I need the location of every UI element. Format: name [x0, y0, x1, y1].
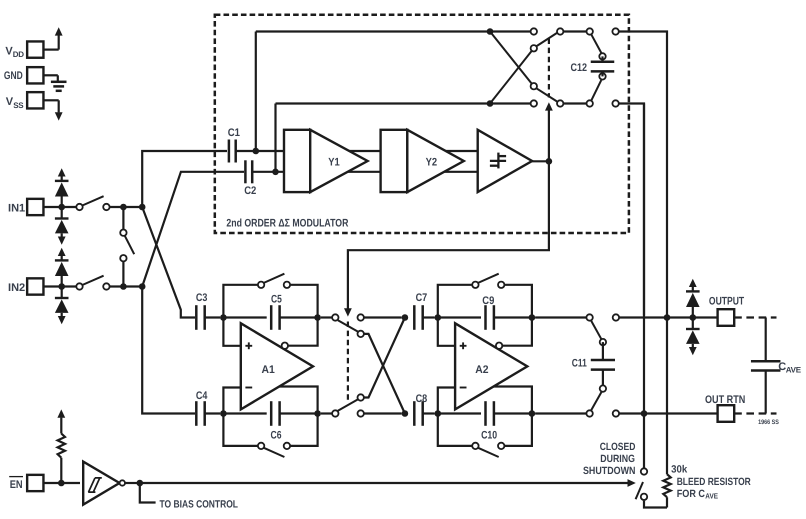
capacitor C10 — [438, 401, 532, 442]
svg-text:TO BIAS CONTROL: TO BIAS CONTROL — [160, 499, 239, 511]
pin VSS — [6, 92, 63, 120]
wire IN1 to C3 (diagonal) — [142, 207, 195, 318]
integrator Y2 — [381, 130, 464, 192]
wire A2 feedback top — [502, 318, 532, 346]
op-amp A2 — [455, 323, 527, 409]
switch shutdown — [636, 468, 648, 500]
switch mid bottom — [321, 394, 402, 416]
wire A2 out bottom to switch — [535, 412, 586, 414]
capacitor C5 — [223, 294, 317, 330]
capacitor C2 — [244, 160, 284, 197]
label 2nd ORDER modulator — [226, 217, 348, 229]
node A2 out top — [529, 314, 536, 321]
svg-text:C9: C9 — [482, 295, 494, 307]
svg-text:A1: A1 — [262, 364, 275, 376]
node B — [120, 283, 127, 290]
svg-text:C11: C11 — [572, 358, 587, 370]
wire shutdown to resistor — [644, 501, 667, 508]
svg-text:2nd ORDER ΔΣ MODULATOR: 2nd ORDER ΔΣ MODULATOR — [226, 217, 348, 229]
svg-text:Y2: Y2 — [426, 156, 438, 168]
switch mid top — [321, 314, 402, 337]
node row2 — [487, 100, 494, 107]
svg-text:C1: C1 — [228, 127, 240, 139]
switch input-commutating — [120, 207, 134, 287]
svg-text:C12: C12 — [571, 62, 588, 74]
node A1 out top — [314, 314, 321, 321]
svg-text:IN1: IN1 — [8, 203, 25, 215]
control arrow down — [344, 308, 352, 316]
wire V1 vertical — [643, 104, 645, 469]
svg-text:EN: EN — [10, 479, 23, 491]
node row1 — [487, 28, 494, 35]
wire outrtn row — [613, 410, 718, 416]
control arrow up — [545, 102, 553, 161]
switch C11 bottom — [586, 385, 606, 416]
svg-text:1966 SS: 1966 SS — [758, 419, 779, 426]
wire control to mid chopper — [348, 161, 549, 309]
node output-V2 — [664, 314, 671, 321]
switch C12 top — [587, 28, 606, 59]
svg-text:A2: A2 — [475, 364, 488, 376]
ground — [4, 70, 67, 91]
node EN out — [137, 480, 144, 487]
svg-text:C2: C2 — [244, 185, 256, 197]
svg-text:C3: C3 — [196, 292, 208, 304]
capacitor C9 — [438, 295, 532, 330]
svg-text:C10: C10 — [481, 430, 497, 442]
svg-text:DD: DD — [13, 50, 24, 59]
svg-text:BLEED RESISTOR: BLEED RESISTOR — [677, 476, 751, 488]
pin IN2 — [8, 278, 76, 294]
wire row2 — [276, 102, 531, 104]
svg-text:C6: C6 — [271, 430, 282, 442]
bubble EN inverter — [120, 480, 125, 485]
node A2 out bottom — [529, 410, 536, 417]
integrator Y1 — [284, 130, 368, 192]
node A2 in+ — [435, 314, 442, 321]
switch chop top — [531, 28, 587, 51]
switch C12 bottom — [587, 73, 606, 107]
node A1 in- — [220, 410, 227, 417]
wire comparator out — [532, 160, 549, 162]
wire Y2-comp top — [407, 150, 477, 152]
switch C6 bypass — [223, 414, 317, 458]
svg-text:C7: C7 — [416, 292, 428, 304]
node EN — [58, 480, 65, 487]
capacitor C8 — [414, 393, 434, 426]
control dashed top — [548, 39, 550, 98]
svg-text:OUT RTN: OUT RTN — [705, 394, 745, 406]
svg-text:OUTPUT: OUTPUT — [709, 296, 745, 308]
node A2 in- — [435, 410, 442, 417]
switch IN1 — [76, 196, 142, 210]
wire A1 -in — [223, 388, 240, 414]
node comparator out — [546, 158, 553, 165]
wire EN to shutdown switch — [125, 479, 636, 487]
capacitor C4 — [196, 390, 220, 426]
svg-text:AVE: AVE — [786, 366, 802, 375]
capacitor C11 — [572, 342, 615, 389]
wire IN1 to C1 — [142, 151, 227, 207]
label TO BIAS CONTROL — [160, 499, 239, 511]
wire IN2 to C2 (diagonal) — [142, 172, 244, 287]
switch C5 bypass — [223, 274, 317, 318]
wire output row — [613, 314, 718, 320]
svg-text:Y1: Y1 — [328, 156, 340, 168]
pin OUTPUT — [709, 296, 745, 326]
node C7 in — [402, 314, 409, 321]
node B2 — [139, 283, 146, 290]
svg-text:AVE: AVE — [705, 492, 718, 501]
wire to bias control — [140, 483, 156, 503]
wire Y1-Y2 bottom — [310, 171, 380, 173]
svg-text:30k: 30k — [671, 463, 687, 475]
wire cross row2-row1 — [490, 48, 534, 103]
label closed during shutdown — [583, 441, 636, 477]
wire dashed to Cave top — [734, 316, 776, 318]
svg-text:SHUTDOWN: SHUTDOWN — [583, 465, 635, 477]
wire Y2-comp bottom — [407, 171, 477, 173]
wire mid cross down — [364, 334, 405, 414]
wire A2 +in — [438, 318, 455, 346]
svg-text:SS: SS — [13, 101, 24, 110]
node A2 — [139, 204, 146, 211]
wire A2 to output switch — [535, 316, 586, 318]
svg-text:GND: GND — [4, 70, 23, 82]
wire row2 to V1 — [612, 100, 644, 315]
comparator U1 — [478, 130, 532, 192]
switch chop bottom — [531, 83, 587, 107]
switch C10 bypass — [438, 414, 532, 458]
wire A1 feedback bottom — [277, 387, 318, 414]
wire row1 — [256, 30, 531, 32]
node C2out — [272, 104, 279, 176]
wire IN2 to C4 — [142, 287, 195, 414]
wire cross row1-row2 — [490, 32, 534, 87]
node outrtn-V1 — [641, 410, 648, 417]
switch IN2 — [76, 276, 142, 290]
ESD diodes IN1 — [55, 168, 69, 245]
node output ESD — [690, 314, 697, 321]
pin EN — [9, 475, 80, 491]
svg-text:CLOSED: CLOSED — [600, 441, 636, 453]
pin GND — [27, 67, 58, 83]
capacitor C6 — [223, 401, 317, 442]
capacitor CAVE — [751, 318, 802, 414]
ESD diodes OUTPUT — [686, 279, 700, 356]
node C8 in — [402, 410, 409, 417]
svg-text:IN2: IN2 — [8, 282, 25, 294]
modulator dashed box — [215, 15, 629, 233]
svg-text:FOR C: FOR C — [677, 488, 706, 500]
ESD diodes IN2 — [55, 248, 69, 325]
resistor EN pullup — [57, 409, 65, 483]
pin IN1 — [8, 199, 76, 215]
capacitor C12 — [571, 56, 615, 76]
op-amp A1 — [241, 323, 313, 409]
svg-text:C4: C4 — [196, 390, 208, 402]
capacitor C7 — [414, 292, 434, 330]
switch C11 top — [586, 314, 606, 345]
pin OUT RTN — [705, 394, 745, 422]
control dashed mid — [347, 322, 349, 403]
switch C9 bypass — [438, 274, 532, 318]
wire A1 feedback top — [288, 318, 318, 346]
pin VDD — [5, 27, 62, 59]
node A1 out bottom — [314, 410, 321, 417]
wire mid cross up — [364, 318, 405, 398]
wire A2 -in — [438, 388, 455, 414]
wire dashed to Cave bottom — [734, 412, 776, 414]
node A — [120, 204, 127, 211]
label 1966 SS — [758, 419, 779, 426]
wire A1 +in — [223, 318, 240, 346]
node IN2 — [58, 283, 65, 290]
capacitor C3 — [196, 292, 220, 330]
wire row1 to V2 — [612, 28, 667, 317]
wire A2 feedback bottom — [491, 387, 532, 414]
svg-text:DURING: DURING — [600, 453, 635, 465]
svg-text:C8: C8 — [416, 393, 428, 405]
node C1out — [253, 32, 260, 155]
wire Y1-Y2 top — [310, 150, 380, 152]
capacitor C1 — [228, 127, 284, 162]
svg-text:C5: C5 — [271, 294, 282, 306]
comparator latch symbol — [490, 153, 506, 169]
switch A2 autozero — [496, 343, 502, 349]
node A1 in+ — [220, 314, 227, 321]
resistor 30k — [663, 474, 670, 507]
switch A1 autozero — [282, 343, 288, 349]
buffer EN schmitt — [83, 462, 119, 505]
wire V2 vertical — [666, 318, 668, 475]
label 30k bleed resistor — [671, 463, 751, 500]
node IN1 — [58, 204, 65, 211]
